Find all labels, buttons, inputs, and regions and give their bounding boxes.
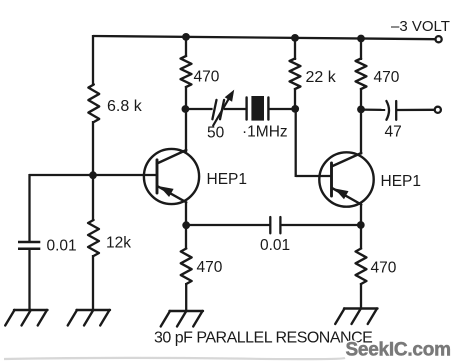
svg-text:470: 470	[197, 259, 223, 276]
wire: Q1 emitter node to C3	[186, 224, 271, 226]
node: tank node (R3/C2/Q1 collector)	[182, 105, 190, 113]
arrow: C2 variable adjustment shaft	[213, 98, 229, 126]
node: Q1 emitter junction	[182, 221, 190, 229]
svg-text:–3 VOLT: –3 VOLT	[391, 18, 450, 35]
transistor Q1 collector stroke	[157, 150, 186, 164]
node: rail junction at R6	[357, 35, 365, 43]
wire: Q2 emitter down to node	[360, 205, 362, 227]
node: bias divider junction	[89, 171, 97, 179]
wire: top supply rail	[93, 36, 435, 39]
capacitor C4 right plate	[395, 101, 397, 120]
capacitor C1 0.01 bottom plate	[18, 247, 40, 250]
wire: C2 to crystal Y1	[224, 108, 247, 110]
wire: R3 to tank node	[185, 86, 187, 110]
transistor Q1 base bar	[156, 160, 159, 193]
resistor R3 470 body	[181, 56, 192, 87]
svg-text:0.01: 0.01	[47, 238, 77, 255]
ground: under R2	[77, 309, 111, 311]
wire: Q1 emitter down to node	[185, 202, 187, 227]
svg-text:HEP1: HEP1	[381, 173, 422, 190]
wire: tank node to C2	[186, 108, 213, 110]
terminal: output terminal	[435, 107, 441, 113]
transistor Q2 body circle	[319, 152, 373, 206]
resistor R6 470 body	[356, 59, 367, 90]
wire: C4 to output terminal	[396, 109, 434, 111]
svg-text:470: 470	[374, 69, 400, 86]
wire: R4 to crystal node	[294, 88, 296, 110]
capacitor C3 left plate	[269, 217, 271, 233]
wire: R1 to bias node	[92, 121, 94, 176]
wire: C1 to ground	[28, 249, 30, 311]
svg-text:SeekIC.com: SeekIC.com	[346, 340, 451, 361]
transistor Q2 emitter stroke	[332, 188, 362, 205]
wire: C1 branch corner down	[28, 174, 30, 243]
svg-text:6.8 k: 6.8 k	[107, 98, 143, 115]
transistor Q1 body circle	[144, 149, 199, 204]
wire: node to R7	[360, 225, 362, 250]
wire: R5 to ground	[185, 283, 187, 312]
wire: rail corner down to R1	[92, 35, 94, 86]
resistor R2 12k body	[88, 220, 99, 256]
wire: crystal node down to Q2 base	[295, 109, 297, 177]
svg-text:50: 50	[207, 125, 225, 142]
resistor R7 470 body	[356, 249, 367, 285]
terminal: -3 V supply terminal	[436, 36, 442, 42]
wire: rail to R4	[294, 38, 296, 60]
resistor R5 470 body	[181, 249, 192, 285]
ground: under C1	[14, 309, 48, 311]
svg-text:12k: 12k	[106, 235, 131, 252]
capacitor C2 right plate	[220, 100, 224, 119]
wire: output node down to Q2 collector	[360, 109, 362, 155]
capacitor C1 0.01 top plate	[18, 241, 40, 244]
capacitor C2 left plate	[212, 100, 216, 119]
wire: rail to R3	[185, 36, 187, 57]
crystal Y1 right plate	[267, 98, 269, 120]
wire: output node to C4	[361, 108, 385, 111]
ground: under R5	[170, 310, 204, 312]
svg-text:0.01: 0.01	[260, 237, 290, 254]
wire: bias node to Q1 base	[29, 174, 158, 176]
wire: crystal Y1 to base node	[268, 108, 295, 110]
capacitor C3 right plate	[279, 217, 281, 233]
svg-text:·1MHz: ·1MHz	[242, 124, 288, 141]
svg-text:22 k: 22 k	[306, 69, 337, 86]
resistor R4 22k body	[290, 59, 301, 90]
node: Q2 emitter junction	[357, 221, 365, 229]
transistor Q2 collector stroke	[332, 153, 362, 167]
transistor Q2 base bar	[330, 163, 333, 196]
wire: R7 to ground	[360, 283, 362, 310]
wire: rail to R6	[360, 39, 362, 60]
wire: R2 to ground	[92, 255, 94, 311]
node: rail junction at R4	[291, 34, 299, 42]
wire: C3 to Q2 emitter node	[280, 224, 361, 226]
wire: bias node to R2	[92, 175, 94, 221]
node: output node (R6/C4/Q2 collector)	[357, 106, 365, 114]
svg-text:HEP1: HEP1	[207, 171, 248, 188]
scan artifact smudge line	[4, 358, 345, 359]
svg-text:30 pF PARALLEL RESONANCE: 30 pF PARALLEL RESONANCE	[154, 329, 372, 346]
ground: under R7	[344, 307, 378, 309]
svg-text:470: 470	[371, 260, 397, 277]
wire: node to R5	[185, 225, 187, 250]
crystal Y1 body	[251, 96, 264, 121]
transistor Q1 emitter stroke	[157, 186, 186, 202]
node: rail junction at R3	[182, 33, 190, 41]
wire: tank node down to Q1 collector	[185, 109, 187, 152]
crystal Y1 left plate	[245, 98, 247, 120]
wire: R6 to output node	[360, 88, 362, 110]
svg-text:47: 47	[385, 124, 402, 141]
svg-text:470: 470	[194, 69, 220, 86]
capacitor C4 left plate (curved)	[386, 101, 389, 120]
resistor R1 6.8k body	[88, 85, 99, 123]
node: crystal/base node	[291, 105, 299, 113]
